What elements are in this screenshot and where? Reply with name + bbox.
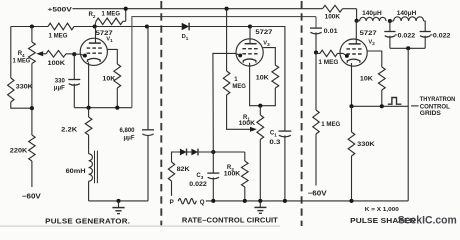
capacitor 0.022 (second) <box>420 31 431 33</box>
node R4 bottom junction <box>30 106 34 110</box>
resistor 1 MEG (V2 grid stopper) <box>320 50 338 56</box>
svg-text:μμF: μμF <box>124 135 135 141</box>
node grid junction (V2) <box>314 50 318 54</box>
node grid/cap junction <box>72 52 76 56</box>
resistor 220K <box>31 108 33 135</box>
wire V1 plate rail y=26.5 <box>11 26 48 28</box>
svg-text:C3: C3 <box>196 173 203 180</box>
resistor 100K (grid) <box>46 51 66 58</box>
wire plate rail to V1 <box>74 26 147 28</box>
resistor 330K (pulse shaper) <box>351 106 353 132</box>
svg-text:−60V: −60V <box>22 193 41 200</box>
resistor 1 MEG (vertical, pulse shaper) <box>315 53 317 111</box>
svg-text:THYRATRON: THYRATRON <box>420 97 456 103</box>
capacitor C3 0.022 <box>212 152 214 173</box>
svg-text:V1: V1 <box>106 37 113 44</box>
svg-text:10K: 10K <box>360 77 374 83</box>
flexible lead squiggle P to Q <box>178 199 196 204</box>
wire V3 screen to 10K <box>263 48 275 65</box>
ground (pulse generator) <box>116 199 120 203</box>
section divider (dashed) rate control / pulse shaper <box>301 1 303 226</box>
scan artifact bottom edge <box>0 225 280 227</box>
svg-text:GRIDS: GRIDS <box>420 111 441 117</box>
node V3 plate <box>248 24 252 28</box>
wire top bus corner to V2 plate <box>356 9 358 21</box>
wire grid junction to V1 pin <box>74 54 85 55</box>
svg-text:140μH: 140μH <box>397 11 417 17</box>
svg-text:1 MEG: 1 MEG <box>13 59 31 65</box>
wire V2 cathode down <box>351 63 353 106</box>
wire V1 screen to 10K <box>107 49 117 64</box>
wire R1 bottom to bus <box>259 140 261 201</box>
tube V3 5727 <box>236 39 263 66</box>
resistor 82K <box>172 152 180 162</box>
wire V3 cathode <box>250 63 276 106</box>
svg-text:P: P <box>170 199 174 206</box>
capacitor 6800 uuF <box>147 135 149 201</box>
wire left column down to 330K <box>10 27 12 79</box>
capacitor C1 0.3 <box>279 130 292 132</box>
resistor 2.2K <box>88 108 90 117</box>
svg-text:100K: 100K <box>224 172 241 178</box>
inductor 140uH (second) <box>390 20 394 22</box>
ground (rate control) <box>258 199 262 203</box>
wire output riser to bottom bus <box>407 48 409 201</box>
svg-text:CONTROL: CONTROL <box>420 104 450 110</box>
svg-text:R2: R2 <box>89 12 96 19</box>
svg-text:K = X 1,000: K = X 1,000 <box>365 207 399 213</box>
svg-text:2.2K: 2.2K <box>61 128 78 134</box>
wire V1 cathode <box>88 62 90 107</box>
wire 1 MEG to R1 wiper <box>227 95 251 129</box>
junction R2 to +500V bus <box>124 7 128 11</box>
svg-text:0.022: 0.022 <box>433 34 451 40</box>
wire top bus to 1 MEG grid leak <box>225 7 229 11</box>
tube V2 5727 <box>340 39 367 66</box>
resistor 1 MEG (plate rail) <box>48 23 74 30</box>
svg-text:10K: 10K <box>256 75 270 81</box>
svg-text:V2: V2 <box>368 39 375 46</box>
svg-text:SeekIC.com: SeekIC.com <box>398 215 457 227</box>
svg-text:V3: V3 <box>263 40 270 47</box>
diode CR1 <box>180 149 187 156</box>
wire cathode rail <box>74 107 132 109</box>
resistor 10K (V2) <box>378 67 385 90</box>
svg-text:60mH: 60mH <box>66 169 86 175</box>
section divider (dashed) pulse gen / rate control <box>160 1 162 226</box>
wire V2 cathode rail <box>352 105 409 107</box>
svg-text:1 MEG: 1 MEG <box>321 122 340 128</box>
node C3/grid junction <box>211 150 215 154</box>
svg-text:PULSE GENERATOR.: PULSE GENERATOR. <box>45 217 130 226</box>
wire V2 screen to 10K <box>367 51 382 67</box>
svg-text:R4: R4 <box>18 51 25 58</box>
svg-text:0.3: 0.3 <box>269 140 281 146</box>
potentiometer R4 1 MEG <box>31 27 33 43</box>
svg-text:μμF: μμF <box>54 86 65 92</box>
capacitor 0.01 <box>315 17 317 28</box>
wire cathode bus (second rail) <box>132 17 316 108</box>
svg-text:1 MEG: 1 MEG <box>49 34 68 40</box>
wire plate rail to C1 <box>250 27 285 131</box>
svg-text:100K: 100K <box>239 121 256 127</box>
svg-text:C1: C1 <box>270 131 277 138</box>
capacitor 330 uuF <box>73 54 75 79</box>
svg-text:5727: 5727 <box>96 30 114 37</box>
resistor 10K (V1) <box>114 64 121 88</box>
svg-text:+500V: +500V <box>48 7 73 14</box>
resistor R2 1 MEG <box>95 21 96 26</box>
resistor 330K <box>8 78 14 102</box>
diode CR2 <box>191 149 198 156</box>
resistor 1 MEG (V3 grid leak) <box>223 71 230 95</box>
wire +500V top bus <box>73 8 323 10</box>
svg-text:Q: Q <box>200 199 205 206</box>
node R4 top junction <box>30 24 34 28</box>
svg-text:0.022: 0.022 <box>398 34 416 40</box>
diode D1 <box>147 26 182 28</box>
svg-text:82K: 82K <box>177 167 191 173</box>
svg-text:1 MEG: 1 MEG <box>102 12 121 18</box>
svg-text:330K: 330K <box>357 142 375 148</box>
wire grid riser to V3 <box>213 53 240 152</box>
resistor 100K (top, pulse shaper) <box>323 5 343 12</box>
svg-text:0.022: 0.022 <box>189 182 207 188</box>
svg-text:220K: 220K <box>10 148 28 154</box>
resistor 10K (V3) <box>272 65 279 88</box>
svg-text:140μH: 140μH <box>362 11 382 17</box>
wire pulse generator bottom <box>89 200 148 202</box>
svg-text:5727: 5727 <box>255 29 273 36</box>
svg-text:10K: 10K <box>102 77 116 83</box>
svg-text:D1: D1 <box>182 34 189 41</box>
svg-text:RATE–CONTROL CIRCUIT: RATE–CONTROL CIRCUIT <box>182 216 278 225</box>
svg-text:1 MEG: 1 MEG <box>318 60 338 66</box>
R4 wiper arrow <box>36 51 43 56</box>
svg-text:100K: 100K <box>325 15 341 21</box>
pulse waveform symbol <box>388 98 402 105</box>
node 6800 cap to plate rail <box>145 24 149 28</box>
inductor 140uH (first) <box>357 20 360 22</box>
capacitor 0.022 (first) <box>389 21 391 31</box>
wire filter output bottom <box>390 47 425 49</box>
potentiometer R1 100K <box>259 106 261 115</box>
svg-text:−60V: −60V <box>308 191 327 198</box>
svg-text:MEG: MEG <box>232 84 246 90</box>
svg-text:330: 330 <box>55 78 66 84</box>
wire bottom bus <box>206 200 408 202</box>
svg-text:100K: 100K <box>48 61 66 67</box>
node V1 plate junction <box>93 24 97 28</box>
svg-text:5727: 5727 <box>360 30 378 37</box>
svg-text:6,800: 6,800 <box>120 128 136 134</box>
tube V1 5727 <box>80 38 107 65</box>
resistor R3 100K <box>244 152 246 161</box>
svg-text:330K: 330K <box>16 84 34 90</box>
label pointer to thyratron grids <box>411 105 419 107</box>
svg-text:0.01: 0.01 <box>324 29 339 35</box>
inductor 60mH <box>89 154 93 181</box>
